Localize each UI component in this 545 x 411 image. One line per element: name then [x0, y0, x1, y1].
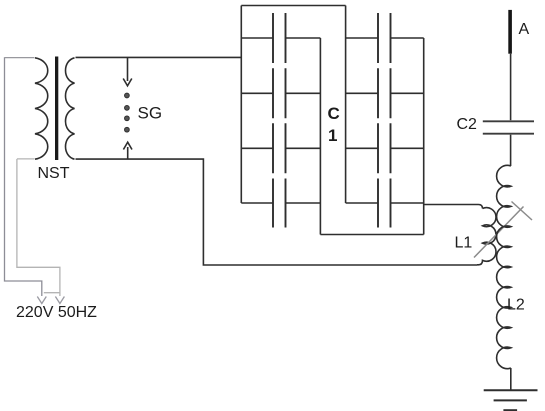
wire: NST secondary top to C1 left rail: [76, 56, 242, 58]
svg-text:A: A: [519, 21, 530, 38]
svg-text:220V 50HZ: 220V 50HZ: [16, 304, 97, 321]
capacitor C1-3 rung wires: [241, 147, 320, 149]
capacitor C1-6 rung wires: [346, 92, 424, 94]
capacitor C1-1 rung wires: [241, 37, 320, 39]
wire: mains input inner conductor (light gray): [17, 159, 60, 296]
wire: electrode A to capacitor C2: [510, 54, 512, 121]
wire: NST primary bottom lead (gray): [17, 158, 35, 160]
capacitor C2 top plate: [483, 120, 534, 122]
spark gap SG gap dots: [125, 93, 130, 132]
capacitor C2 bottom plate: [483, 133, 534, 135]
capacitor bank C1 : top link wire: [241, 5, 345, 7]
wire: C1 output to primary coil L1: [424, 205, 483, 209]
capacitor C1-5 rung wires: [346, 37, 424, 39]
capacitor bank C1 : left block left rail: [240, 6, 242, 204]
arrowhead: mains lead 2 (gray, pointing down): [55, 297, 64, 304]
wire: L2 to ground: [510, 368, 512, 390]
electrode A (discharge terminal): [508, 10, 512, 54]
transformer NST primary winding: [35, 58, 48, 159]
transformer NST core: [55, 57, 58, 161]
capacitor C1-8 rung wires: [346, 202, 424, 204]
svg-text:L1: L1: [455, 235, 473, 252]
wire: NST primary top lead (gray): [5, 57, 35, 59]
inductor L1 (primary coil with rounded ends): [477, 208, 496, 265]
svg-text:1: 1: [328, 126, 337, 145]
svg-text:C: C: [328, 104, 340, 123]
tap arrow shaft across L1/L2 (gray): [474, 207, 524, 258]
svg-text:L2: L2: [507, 297, 525, 314]
svg-text:NST: NST: [38, 165, 70, 182]
ground: [484, 389, 538, 391]
capacitor C1-7 rung wires: [346, 147, 424, 149]
capacitor C1 left block plates: [273, 13, 286, 228]
capacitor bank C1 : right block right rail: [423, 38, 425, 235]
transformer NST secondary winding: [66, 58, 75, 159]
svg-text:SG: SG: [138, 104, 163, 123]
svg-text:C2: C2: [457, 116, 478, 133]
wire: NST secondary bottom, down and right to L1 bottom: [76, 159, 478, 265]
capacitor bank C1 : left block right rail: [319, 38, 321, 235]
inductor L2 (secondary coil): [497, 165, 511, 368]
spark gap SG top electrode arrow (pointing down): [127, 57, 129, 81]
wire: capacitor C2 to secondary coil: [510, 135, 512, 166]
spark gap SG bottom electrode arrow (pointing up): [127, 147, 129, 159]
capacitor bank C1 : bottom link wire: [320, 234, 423, 236]
wire: mains input outer conductor (gray): [5, 57, 42, 296]
tap arrow crossbar (gray): [512, 202, 533, 221]
arrowhead: mains lead 1 (gray, pointing down): [37, 297, 46, 304]
capacitor C1-2 rung wires: [241, 92, 320, 94]
capacitor C1-4 rung wires: [241, 202, 320, 204]
capacitor bank C1 : right block left rail: [345, 6, 347, 204]
capacitor C1 right block plates: [378, 13, 391, 228]
